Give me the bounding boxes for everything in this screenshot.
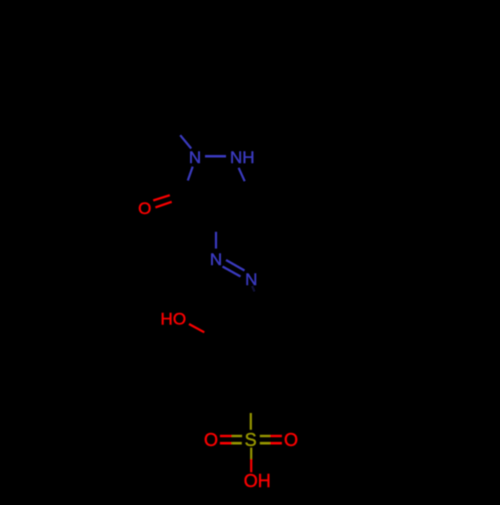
svg-text:N: N — [210, 250, 222, 269]
svg-text:N: N — [245, 270, 257, 289]
svg-text:OH: OH — [244, 471, 271, 491]
svg-text:O: O — [204, 430, 218, 450]
svg-text:S: S — [245, 430, 257, 450]
svg-text:O: O — [284, 430, 298, 450]
svg-text:HO: HO — [161, 310, 187, 329]
svg-text:N: N — [189, 148, 201, 167]
svg-text:NH: NH — [230, 148, 255, 167]
svg-text:O: O — [138, 199, 151, 218]
